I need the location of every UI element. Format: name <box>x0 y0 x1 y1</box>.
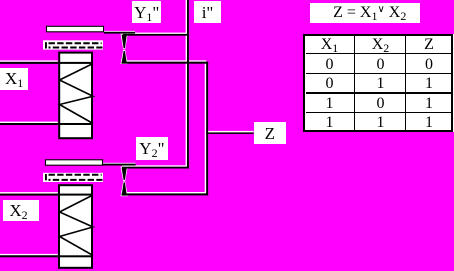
wire to Z <box>206 132 253 134</box>
wire W3 to coil X2 <box>0 194 93 196</box>
contact Y1 top wedge <box>122 35 127 49</box>
contact Y1 bottom wedge <box>122 51 127 63</box>
label X2 <box>3 200 39 221</box>
truth table column line 2 <box>405 36 407 130</box>
coil X2 winding zigzag <box>60 195 94 256</box>
output rail to Z <box>206 62 208 196</box>
yoke dashed bar X1 lower dashes <box>49 47 103 49</box>
armature link X1 <box>104 32 135 34</box>
yoke dashed bar X2 upper dashes <box>49 174 102 176</box>
coil X1 <box>59 53 92 139</box>
label Z <box>254 122 287 144</box>
contact Y2 top wedge <box>122 168 127 180</box>
contact Y1 bottom terminal wire <box>122 62 209 64</box>
contact1 bottom line white fringe <box>122 60 205 62</box>
wire W4 white fringe <box>0 254 58 255</box>
wire W2 white fringe <box>0 122 58 123</box>
table row2 <box>305 76 354 92</box>
contact Y1 bottom wedge halo <box>121 50 128 64</box>
label X1 <box>0 68 28 91</box>
contact Y1 top terminal wire <box>123 34 189 36</box>
armature bar X2 <box>46 160 103 165</box>
table row4 <box>305 115 354 131</box>
table header X2 <box>356 37 405 53</box>
coil X1 winding zigzag <box>60 64 94 124</box>
contact Y2 bottom wedge <box>122 182 127 195</box>
table row1 <box>305 57 354 73</box>
table header X1 <box>305 37 354 53</box>
output rail white fringe <box>205 60 207 193</box>
armature link X2 white fringe <box>103 163 136 164</box>
contact Y1 top wedge halo <box>121 34 128 50</box>
label Y2" <box>136 137 168 159</box>
truth table right white sliver <box>453 34 454 132</box>
truth table <box>303 34 453 132</box>
supply rail i" <box>187 0 189 169</box>
wire W3 white fringe <box>0 192 58 193</box>
coil X2 <box>59 185 92 268</box>
armature bar X1 <box>47 26 104 32</box>
truth table row line 4 <box>306 112 452 114</box>
truth table row line 1 <box>306 53 452 55</box>
table header Z <box>407 37 451 53</box>
contact Y2 bottom wedge halo <box>121 181 128 196</box>
wire W1 white fringe <box>0 60 58 61</box>
contact Y2 top wedge halo <box>121 167 128 181</box>
contact Y2 bottom terminal wire <box>122 193 209 195</box>
yoke dashed bar X1 background <box>43 40 103 49</box>
contact Y2 top terminal wire <box>122 167 189 169</box>
wire W2 from coil X1 <box>0 123 93 125</box>
wire W1 to coil X1 <box>0 62 93 64</box>
armature link X2 <box>103 164 136 166</box>
yoke dashed bar X2 left cap <box>45 174 47 180</box>
yoke dashed bar X2 background <box>43 173 103 182</box>
label i" <box>194 1 220 23</box>
yoke dashed bar X1 upper dashes <box>49 42 102 44</box>
wire W4 from coil X2 <box>0 255 93 257</box>
truth table row line 2 <box>306 73 452 75</box>
contact2 bottom line white fringe <box>122 192 205 194</box>
yoke dashed bar X1 left cap <box>45 42 47 48</box>
truth table column line 1 <box>354 36 356 130</box>
title formula box <box>310 3 420 23</box>
truth table row line 3 <box>306 92 452 94</box>
rail i white fringe <box>186 0 188 167</box>
wire Z white fringe <box>208 131 254 133</box>
contact2 top line white fringe <box>122 165 186 167</box>
contact1 top line white fringe <box>126 33 186 34</box>
table row3 <box>305 96 354 112</box>
yoke dashed bar X2 lower dashes <box>49 179 103 181</box>
label Y1" <box>132 1 161 23</box>
armature link X1 white fringe <box>104 31 135 32</box>
